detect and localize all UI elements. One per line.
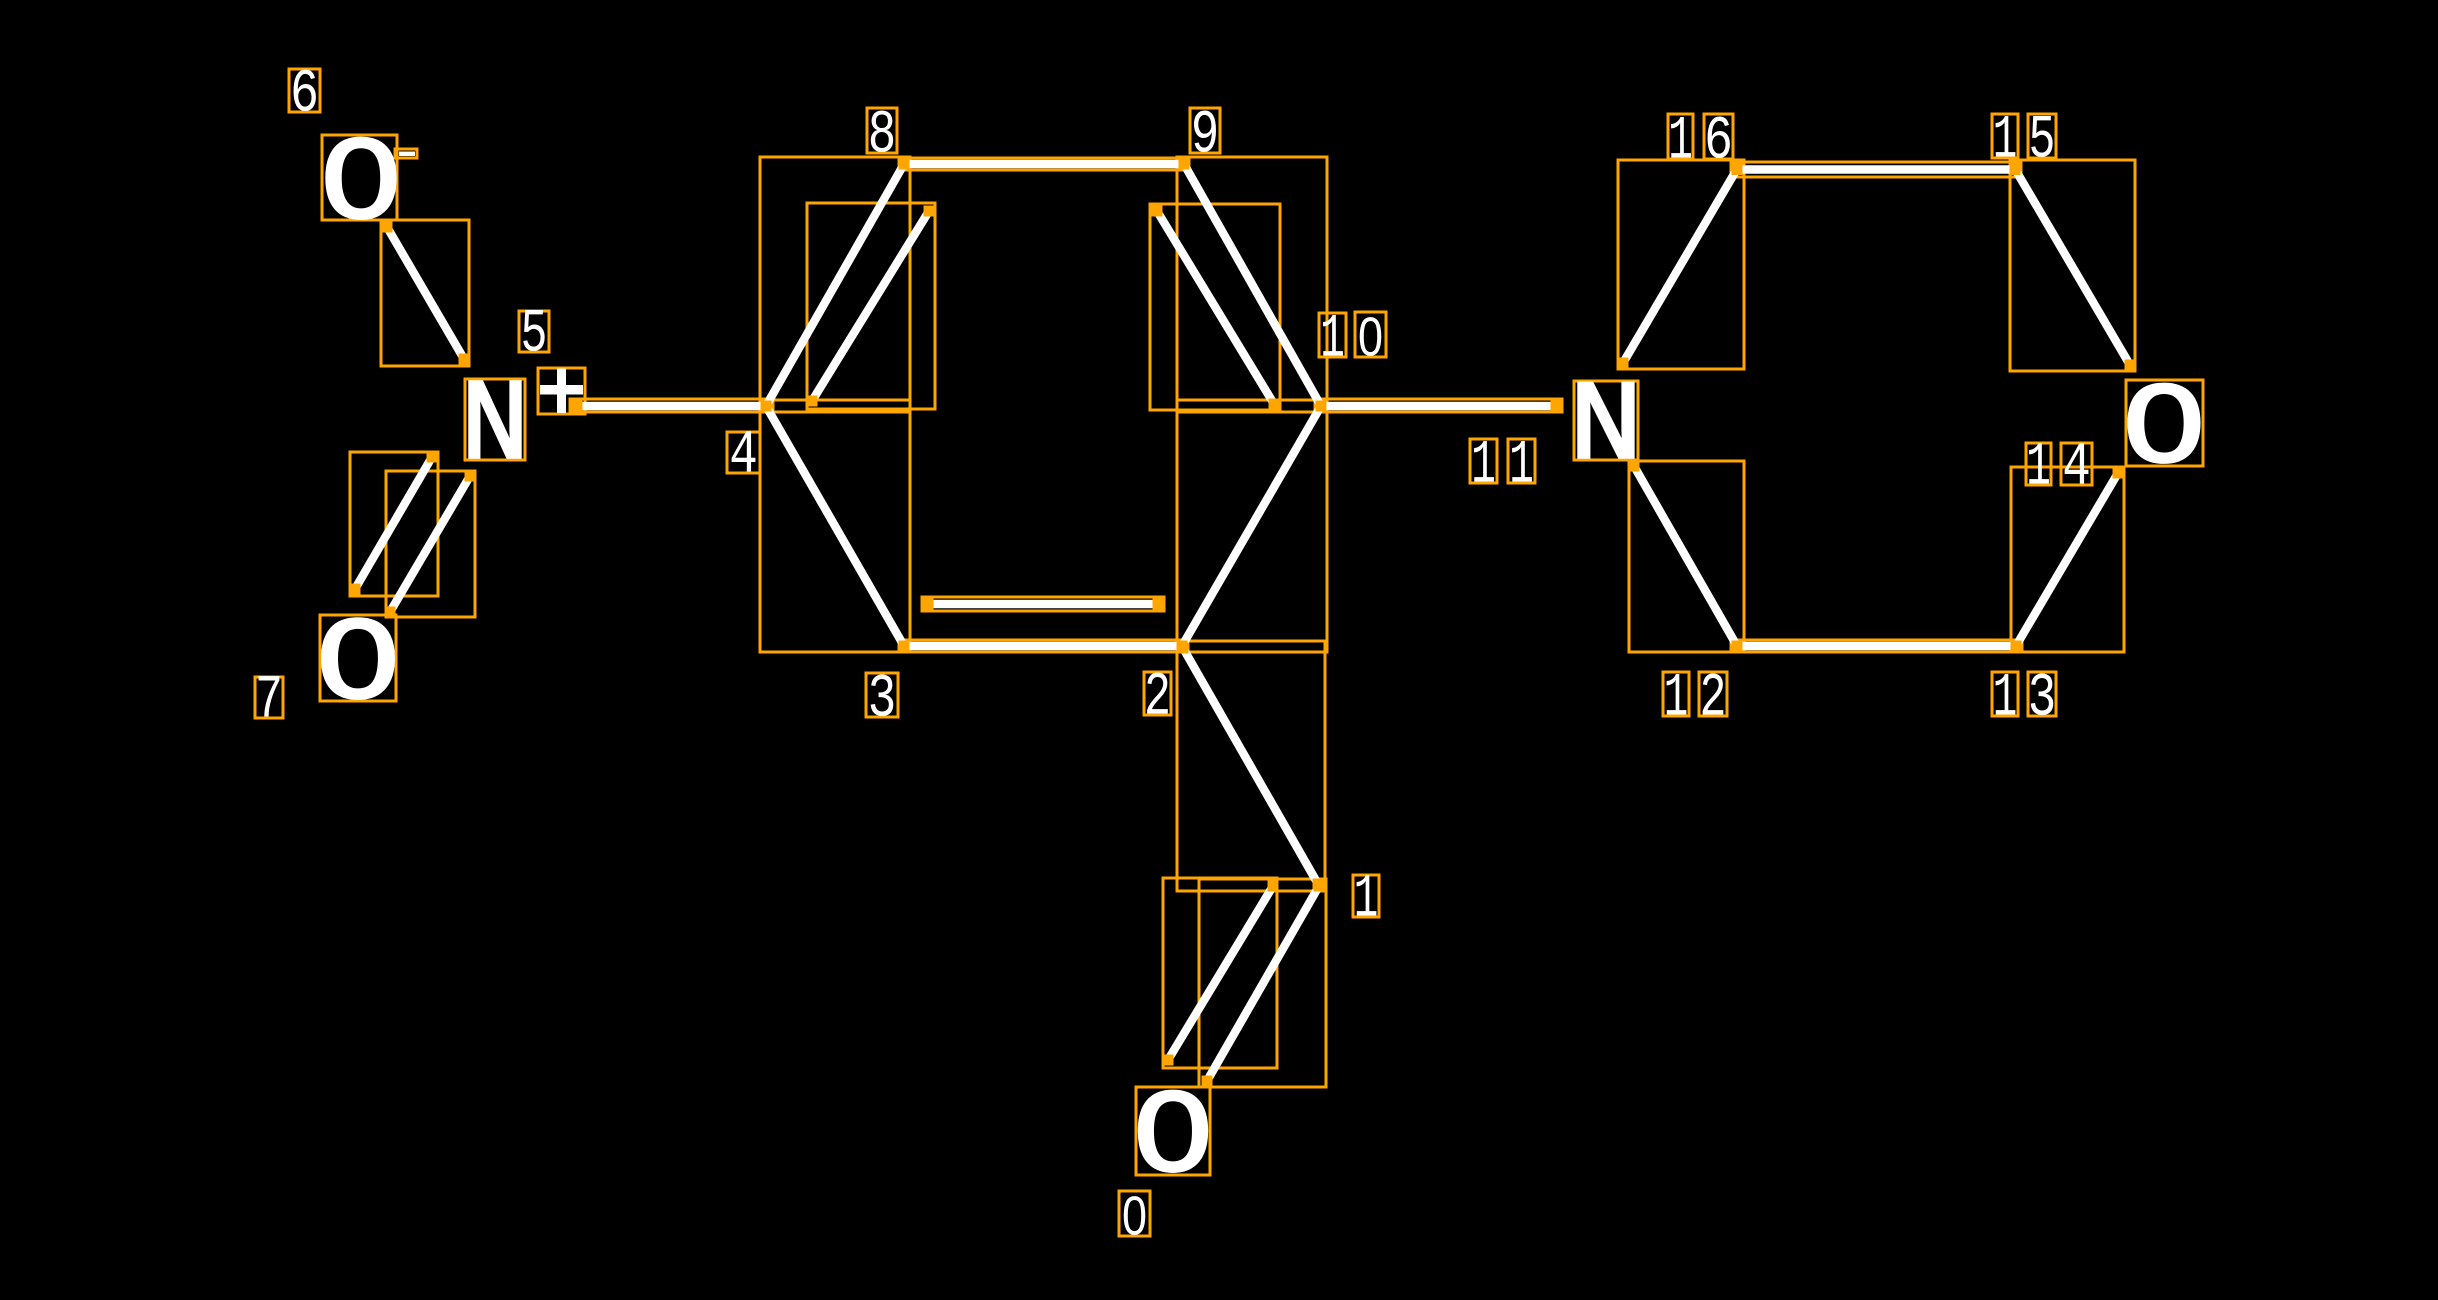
svg-text:O: O [2122,365,2206,497]
svg-text:2: 2 [1144,664,1171,733]
bond 6-5 line [387,227,464,359]
charge minus box on O6 [395,149,417,158]
label 13 digit 3 box [2028,672,2056,716]
bond 3=2 inner bounding box [922,597,1164,611]
svg-text:1: 1 [1664,665,1689,734]
bond 4-8 endpoint markers [761,401,772,412]
svg-text:9: 9 [1191,102,1220,171]
svg-text:N: N [1569,364,1643,492]
svg-text:6: 6 [290,61,319,130]
bond 1=0 line A endpoint markers [1314,881,1325,892]
bond 1=0 line A line [1207,886,1319,1081]
bond 3-2 endpoint markers [899,641,910,652]
bond 12-11 line [1634,466,1737,646]
bond 12-13 endpoint markers [1732,641,1743,652]
bond 14-15 line [2015,169,2130,365]
bond 9=10 inner line [1157,211,1274,404]
bond 4-8 line [766,164,904,406]
bond 3=2 inner line [928,600,1158,608]
label 2 digit 2 box [1144,672,1171,715]
bond 12-13 bounding box [1731,640,2022,652]
bond 4-8 bounding box [760,157,910,412]
bond 13-14 endpoint markers [2011,641,2022,652]
bond 5=7 line B endpoint markers [465,471,476,482]
label 14 digit 1 box [2026,443,2051,485]
svg-text:1: 1 [1993,665,2018,734]
atom N5 (N+) bounding box [465,379,525,460]
bond 5=7 line A endpoint markers [427,452,438,463]
bond 5-4 bounding box [570,399,773,412]
label 5 digit 5 box [519,311,549,352]
bond 10-2 endpoint markers [1316,401,1327,412]
bond 3-2 line [904,642,1182,650]
bond 4-3 bounding box [760,400,910,652]
svg-text:3: 3 [2028,665,2057,734]
label 1 digit 1 box [1353,875,1379,917]
bond 3-2 bounding box [899,640,1188,652]
svg-text:1: 1 [1354,866,1379,935]
bond 9-10 endpoint markers [1179,159,1190,170]
label 11 digit 1b box [1508,439,1535,483]
svg-text:8: 8 [868,102,897,171]
bond 9-10 bounding box [1177,157,1327,412]
bond 4=8 inner line [812,211,929,401]
atom N11 bounding box [1574,381,1638,460]
atom O7 bounding box [320,615,396,701]
atom O14 bounding box [2126,380,2203,466]
bond 4=8 inner endpoint markers [807,396,818,407]
label 16 digit 1 box [1668,114,1693,159]
svg-text:4: 4 [729,422,758,491]
bond 1=0 line A bounding box [1199,879,1326,1087]
bond 12-11 bounding box [1629,461,1744,652]
label 16 digit 6 box [1704,114,1733,159]
bond 4-3 line [766,406,904,646]
svg-text:O: O [320,119,402,254]
bond 9=10 inner endpoint markers [1152,206,1163,217]
label 12 digit 1 box [1663,672,1689,716]
svg-text:3: 3 [868,666,897,735]
label 4 digit 4 box [727,432,760,473]
bond 9=10 inner bounding box [1150,204,1280,410]
label 14 digit 4 box [2061,443,2092,485]
bond 1=0 line B bounding box [1163,878,1277,1068]
bond 10-11 endpoint markers [1316,401,1327,412]
label 15 digit 1 box [1992,114,2018,158]
bond 12-13 line [1737,642,2016,650]
bond 16-15 endpoint markers [1732,164,1743,175]
bond 4=8 inner bounding box [807,203,935,409]
label 11 digit 1a box [1470,439,1497,483]
bond 3=2 inner endpoint markers [923,599,934,610]
bond 6-5 endpoint markers [382,222,393,233]
bond 10-11 bounding box [1315,399,1562,412]
bond 8-9 endpoint markers [899,159,910,170]
svg-text:0: 0 [1122,1185,1147,1247]
bond 5=7 line B bounding box [386,471,475,617]
svg-text:1: 1 [1668,108,1693,177]
bond 13-14 line [2016,473,2118,646]
label 12 digit 2 box [1699,672,1727,716]
bond 10-11 line [1321,402,1556,410]
atom O6 (O-) bounding box [322,135,397,220]
bond 5=7 line B line [390,476,470,612]
bond 5-4 line [577,402,766,410]
bond 16-15 bounding box [1731,162,2021,177]
charge plus box on N5 [538,368,585,414]
bond 1=0 line B endpoint markers [1268,881,1279,892]
bond 5-4 endpoint markers [572,401,583,412]
bond 9-10 line [1184,164,1321,406]
bond 6-5 bounding box [381,220,469,366]
bond 4-3 endpoint markers [761,401,772,412]
svg-text:1: 1 [2026,434,2051,503]
svg-text:1: 1 [1471,432,1496,501]
label 7 digit 7 box [255,677,283,718]
svg-text:1: 1 [1509,432,1534,501]
bond 11-16 endpoint markers [1618,358,1629,369]
label 10 digit 1 box [1319,313,1346,357]
svg-text:O: O [316,601,401,734]
bond 5=7 line A line [355,457,432,589]
bond 2-1 endpoint markers [1178,643,1189,654]
bond 16-15 line [1737,165,2015,173]
charge minus glyph [399,152,415,157]
label 0 digit 0 box [1119,1191,1150,1236]
svg-text:4: 4 [2062,434,2091,503]
bond 2-1 line [1183,648,1318,884]
bond 10-2 bounding box [1177,400,1327,652]
label 9 digit 9 box [1190,108,1220,153]
bond 13-14 bounding box [2011,467,2124,652]
bond 14-15 bounding box [2010,160,2135,371]
bond 11-16 line [1623,169,1737,363]
bond 10-2 line [1182,406,1321,646]
label 10 digit 0 box [1355,312,1386,357]
bond 14-15 endpoint markers [2010,164,2021,175]
svg-text:6: 6 [1704,108,1733,177]
charge plus glyph [540,385,583,395]
label 13 digit 1 box [1992,672,2018,716]
bond 8-9 line [904,160,1184,168]
bond 5=7 line A bounding box [350,452,438,596]
bond 12-11 endpoint markers [1629,461,1640,472]
svg-text:5: 5 [2029,107,2056,176]
svg-text:2: 2 [1700,665,1727,734]
bond 1=0 line B line [1168,886,1273,1060]
svg-text:0: 0 [1358,306,1383,368]
atom O0 bounding box [1136,1087,1210,1175]
label 3 digit 3 box [866,673,898,717]
bond 2-1 bounding box [1177,641,1325,891]
bond 8-9 bounding box [899,158,1189,170]
label 8 digit 8 box [867,108,897,153]
label 15 digit 5 box [2028,114,2056,158]
svg-text:7: 7 [255,667,283,736]
label 6 digit 6 box [289,69,320,112]
svg-text:5: 5 [521,301,548,370]
bond 11-16 bounding box [1618,160,1744,369]
svg-text:1: 1 [1320,306,1345,375]
